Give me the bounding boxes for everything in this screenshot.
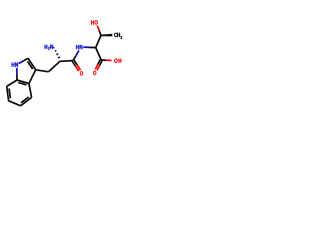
indole benzene double bond C5=C4 xyxy=(21,97,32,106)
indole bond N1-C7a xyxy=(16,68,18,74)
label H2N amine N2 xyxy=(45,45,48,49)
amide double bond CO1=O1 xyxy=(72,61,75,66)
label O carboxyl O3 xyxy=(93,71,96,75)
indole benzene bond C4-C3a xyxy=(29,84,32,98)
indole benzene bond C7a-C7 xyxy=(7,80,17,86)
bond CH2-CA1 Trp alpha carbon xyxy=(49,61,61,72)
label HO hydroxyl O2 xyxy=(91,20,94,24)
bond C3-CH2 xyxy=(36,70,49,72)
hashed wedge CA1 to amine N2 xyxy=(53,46,54,49)
label CH3 methyl xyxy=(114,33,117,37)
indole bond N1-C2 xyxy=(19,61,24,64)
bond N3-CA2 xyxy=(83,46,89,48)
bond CA2-CO2 xyxy=(96,48,102,60)
indole bond C3-C3a xyxy=(29,70,36,84)
indole benzene bond C6-C5 xyxy=(9,101,21,106)
bond CB-O2 hydroxyl xyxy=(99,30,101,35)
carboxyl double bond CO2=O3 xyxy=(98,60,101,65)
amide bond CO1-N3 xyxy=(73,56,76,61)
label HN amide N3 xyxy=(76,45,79,49)
bond CA1-CO1 xyxy=(60,60,73,63)
wedge bond CB-CH3 xyxy=(101,34,112,37)
carboxyl bond CO2-O4 xyxy=(101,59,106,61)
label O amide O1 xyxy=(80,71,83,75)
bond CA2-CB xyxy=(96,35,101,47)
indole fusion double bond C3a=C7a xyxy=(17,80,29,84)
chemical structure drawing: Trp-Thr dipeptide xyxy=(0,0,130,130)
label HN indole N1 xyxy=(12,63,15,67)
label OH carboxyl O4 xyxy=(114,59,117,63)
indole pyrrole double bond C2=C3 xyxy=(28,58,36,70)
indole benzene double bond C7=C6 xyxy=(7,86,9,100)
